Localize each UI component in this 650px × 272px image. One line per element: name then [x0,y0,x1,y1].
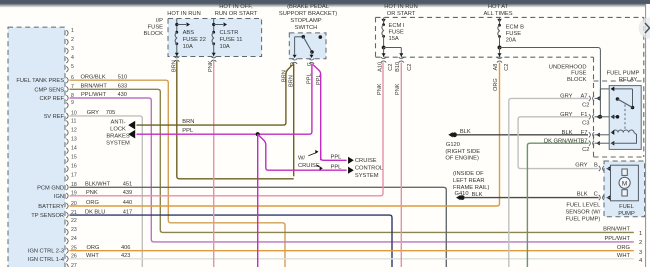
svg-text:ALL TIMES: ALL TIMES [483,11,512,17]
svg-text:(RIGHT SIDE: (RIGHT SIDE [445,149,480,155]
wire BRN left branch to anti-lock arrow [137,65,293,126]
svg-text:CRUISE: CRUISE [298,163,320,169]
svg-text:WHT: WHT [86,253,99,259]
svg-text:PPL: PPL [331,155,342,161]
feed wire to fuel pump relay [500,48,601,117]
relay internals [614,88,633,90]
svg-text:FUEL PUMP: FUEL PUMP [607,71,640,77]
wire PNK from ECM I fuse pin B10 to bottom [400,63,402,268]
fuel pump pins [599,166,601,171]
svg-text:22: 22 [71,218,77,224]
junction node PPL splice [256,132,260,136]
svg-text:451: 451 [123,182,132,188]
svg-text:FUEL: FUEL [619,204,634,210]
svg-text:CLSTR: CLSTR [220,30,239,36]
svg-text:11: 11 [71,118,76,124]
svg-text:439: 439 [123,190,132,196]
svg-text:FUSE: FUSE [148,25,164,31]
wire ORG/BLK 510 routing [70,80,286,267]
svg-text:ABS: ABS [183,30,195,36]
svg-text:PNK: PNK [86,190,98,196]
svg-text:4: 4 [71,55,74,61]
svg-text:HOT IN RUN: HOT IN RUN [384,4,417,10]
svg-text:C2: C2 [582,147,589,153]
wire GRY 705 routing to bottom edge [70,116,143,267]
top dark bar [0,0,650,8]
svg-text:B10: B10 [395,62,401,72]
svg-text:HOT IN RUN: HOT IN RUN [167,11,200,17]
svg-text:417: 417 [123,209,132,215]
right scrollbar [646,4,650,267]
svg-text:27: 27 [71,263,77,267]
svg-text:B: B [594,162,598,168]
svg-text:10A: 10A [220,44,230,50]
svg-text:5V REF: 5V REF [44,114,64,120]
svg-text:BRN/WHT: BRN/WHT [603,227,630,233]
fuel pump motor [611,165,639,201]
stoplamp switch internals [294,37,296,55]
svg-text:HOT AT: HOT AT [488,4,509,10]
svg-text:LOCK: LOCK [110,127,126,133]
svg-text:16: 16 [71,164,77,170]
svg-text:FUSE 22: FUSE 22 [183,37,206,43]
svg-text:C: C [594,192,598,198]
svg-text:SUPPORT BRACKET): SUPPORT BRACKET) [279,11,337,17]
svg-text:ECM B: ECM B [506,24,524,30]
svg-text:BLOCK: BLOCK [567,77,587,83]
svg-text:BLOCK: BLOCK [144,31,164,37]
wire PNK from CLSTR fuse [213,61,215,267]
svg-text:PPL/WHT: PPL/WHT [604,236,630,242]
svg-text:GRY: GRY [87,110,100,116]
svg-text:510: 510 [118,74,127,80]
wire BRN from ABS fuse routing [177,61,294,179]
svg-text:12: 12 [71,127,77,133]
svg-text:PCM GND: PCM GND [37,185,64,191]
svg-text:BATTERY: BATTERY [38,204,64,210]
svg-text:IGN CTRL 2-3: IGN CTRL 2-3 [28,249,64,255]
fuse ABS FUSE 22 10A [176,19,178,33]
PCM pins 1-27 [66,30,68,36]
svg-text:BRN: BRN [281,70,287,82]
svg-text:SYSTEM: SYSTEM [355,173,379,179]
svg-text:ANTI-: ANTI- [110,120,125,126]
wire PPL to cruise control upper [321,150,347,160]
svg-text:UNDERHOOD: UNDERHOOD [549,64,587,70]
svg-text:ECM I: ECM I [389,23,405,29]
svg-text:RUN OR START: RUN OR START [215,11,258,17]
PCM connector block (left) [8,27,65,272]
wire WHT 423 from pin 26 [70,258,634,260]
svg-text:(BRAKE PEDAL: (BRAKE PEDAL [287,4,329,10]
svg-text:BRN: BRN [182,119,194,125]
svg-text:17: 17 [71,173,77,179]
svg-text:5: 5 [71,64,74,70]
svg-text:A10: A10 [377,62,383,72]
wire PPL right branch down to cruise [313,65,321,161]
svg-text:FUSE: FUSE [389,30,405,36]
svg-text:BLK/WHT: BLK/WHT [85,182,111,188]
wire DK GRN/WHT from relay B7 to bottom edge [527,143,588,267]
underhood fuse block left edge [593,57,595,157]
svg-text:PNK: PNK [377,83,383,95]
svg-text:TP SENSOR: TP SENSOR [31,213,64,219]
svg-text:13: 13 [71,136,77,142]
svg-text:2: 2 [71,37,74,43]
svg-text:23: 23 [71,227,77,233]
svg-text:G120: G120 [446,142,460,148]
svg-text:IGN CTRL 1-4: IGN CTRL 1-4 [28,257,64,263]
fuse ECM B FUSE 20A [497,19,501,23]
wire GRY from relay A7 to bottom edge [509,98,589,267]
wire PNK 439 routing up to ECM I fuse pin A10 [70,63,384,196]
svg-text:DK BLU: DK BLU [85,209,105,215]
wire PPL splice down to bottom edge [257,134,259,267]
ECM fuse dashed box [376,16,644,18]
svg-text:20A: 20A [506,37,516,43]
svg-text:PPL: PPL [182,128,193,134]
fuse ECM I FUSE 15A [381,19,385,23]
svg-text:ORG: ORG [86,200,99,206]
svg-text:BRN: BRN [171,60,177,72]
svg-text:BRN/WHT: BRN/WHT [81,84,108,90]
underhood fuse block right edge [643,17,645,157]
svg-text:1: 1 [71,28,74,34]
svg-text:SYSTEM: SYSTEM [106,141,130,147]
svg-text:C2: C2 [504,64,510,71]
svg-text:CRUISE: CRUISE [355,158,377,164]
svg-text:9: 9 [71,100,74,106]
svg-text:M: M [622,180,627,187]
svg-text:PPL: PPL [307,73,313,84]
svg-text:PPL: PPL [316,74,322,85]
svg-text:ORG: ORG [493,78,499,91]
svg-text:GRY: GRY [575,162,588,168]
svg-text:3: 3 [639,250,642,256]
wire ORG 440 routing up to ECM B fuse pin A8 [70,63,500,207]
svg-text:FUSE: FUSE [571,71,587,77]
fuse CLSTR FUSE 11 10A [213,19,215,33]
svg-text:F7: F7 [581,130,588,136]
svg-text:PPL: PPL [331,164,342,170]
ground G120 [448,132,453,137]
svg-text:(INSIDE OF: (INSIDE OF [453,171,484,177]
arrow to anti-lock (PPL) [128,130,135,139]
wire GRY from relay F1 to fuel pump pin B [518,117,599,169]
svg-text:OF ENGINE): OF ENGINE) [445,156,479,162]
svg-text:SWITCH: SWITCH [295,25,318,31]
svg-text:FUSE 11: FUSE 11 [220,37,243,43]
CRUISE CONTROL SYSTEM label [348,157,354,164]
svg-text:406: 406 [121,245,130,251]
fuel pump relay box [609,86,641,150]
wire ORG 406 from pin 25 [70,250,634,252]
svg-text:W/: W/ [298,156,305,162]
underhood fuse block bottom edge [594,156,644,158]
svg-text:HOT IN OFF,: HOT IN OFF, [219,4,253,10]
stoplamp switch box [289,33,326,59]
switch blade [303,37,312,52]
svg-text:14: 14 [71,145,77,151]
svg-text:IGN: IGN [54,194,64,200]
svg-text:PPL/WHT: PPL/WHT [81,92,107,98]
svg-text:CKP REF: CKP REF [39,96,64,102]
svg-text:FUEL LEVEL: FUEL LEVEL [566,203,600,209]
svg-text:3: 3 [71,46,74,52]
svg-text:PNK: PNK [395,83,401,95]
svg-text:LEFT REAR: LEFT REAR [453,178,485,184]
svg-text:OR START: OR START [387,11,416,17]
wire PPL splice to cruise control lower [258,134,347,170]
relay blade [618,99,633,108]
svg-text:C2: C2 [407,64,413,71]
svg-text:633: 633 [118,84,127,90]
svg-text:BLK: BLK [577,192,588,198]
I/P fuse block box [168,19,262,57]
svg-text:SENSOR (W/: SENSOR (W/ [565,210,600,216]
underhood fuse block top edge [594,80,644,82]
svg-text:ORG: ORG [87,245,100,251]
svg-text:FUSE: FUSE [506,31,522,37]
wire DK BLU 417 routing to bottom edge [70,215,393,267]
svg-text:2: 2 [639,240,642,246]
junction under ECM B fuse [498,46,502,50]
svg-text:15A: 15A [389,36,399,42]
svg-text:ORG: ORG [617,245,631,251]
svg-text:BLK: BLK [562,130,573,136]
wire PPL left branch to anti-lock arrow [137,64,312,135]
relay actuator link [624,105,626,130]
svg-text:15: 15 [71,155,77,161]
svg-text:FUEL PUMP): FUEL PUMP) [566,217,601,223]
svg-text:I/P: I/P [156,18,163,24]
wire BLK/WHT 451 routing to bottom edge [70,187,447,267]
fuel pump dashed box [604,161,645,217]
arrow to anti-lock (BRN) [128,121,135,130]
svg-text:PNK: PNK [208,60,214,72]
svg-text:C2: C2 [582,102,589,108]
wire BLK from G410 to fuel pump pin C [464,197,599,199]
wire PPL/WHT 430 routing to right edge pin 2 [70,98,634,242]
relay pins on fuse block edge [589,96,591,101]
svg-text:A8: A8 [493,64,499,71]
svg-text:WHT: WHT [617,253,631,259]
svg-text:24: 24 [71,236,77,242]
svg-text:CMP SENS: CMP SENS [34,87,64,93]
svg-text:BRN: BRN [289,75,295,87]
svg-text:RELAY: RELAY [619,77,638,83]
svg-text:CONTROL: CONTROL [355,166,383,172]
svg-text:C3: C3 [582,121,589,127]
relay coil [613,130,634,132]
wire BRN right branch down to y178.8 [293,64,295,177]
wire BRN/WHT 633 routing to right edge pin 1 [70,89,634,232]
svg-text:FUEL TANK PRES: FUEL TANK PRES [16,78,64,84]
svg-text:423: 423 [121,253,130,259]
svg-text:1: 1 [639,231,642,237]
svg-text:10A: 10A [183,44,193,50]
svg-text:430: 430 [118,92,127,98]
svg-text:440: 440 [123,200,132,206]
svg-text:BRAKES: BRAKES [106,134,129,140]
wire BLK from G120 to relay pin F7 [457,134,588,136]
svg-text:C2: C2 [388,64,394,71]
junction under ECM I fuse [382,46,386,50]
svg-text:ORG/BLK: ORG/BLK [81,74,106,80]
svg-text:STOPLAMP: STOPLAMP [290,18,321,24]
svg-text:PUMP: PUMP [618,211,635,217]
svg-text:705: 705 [106,110,116,116]
